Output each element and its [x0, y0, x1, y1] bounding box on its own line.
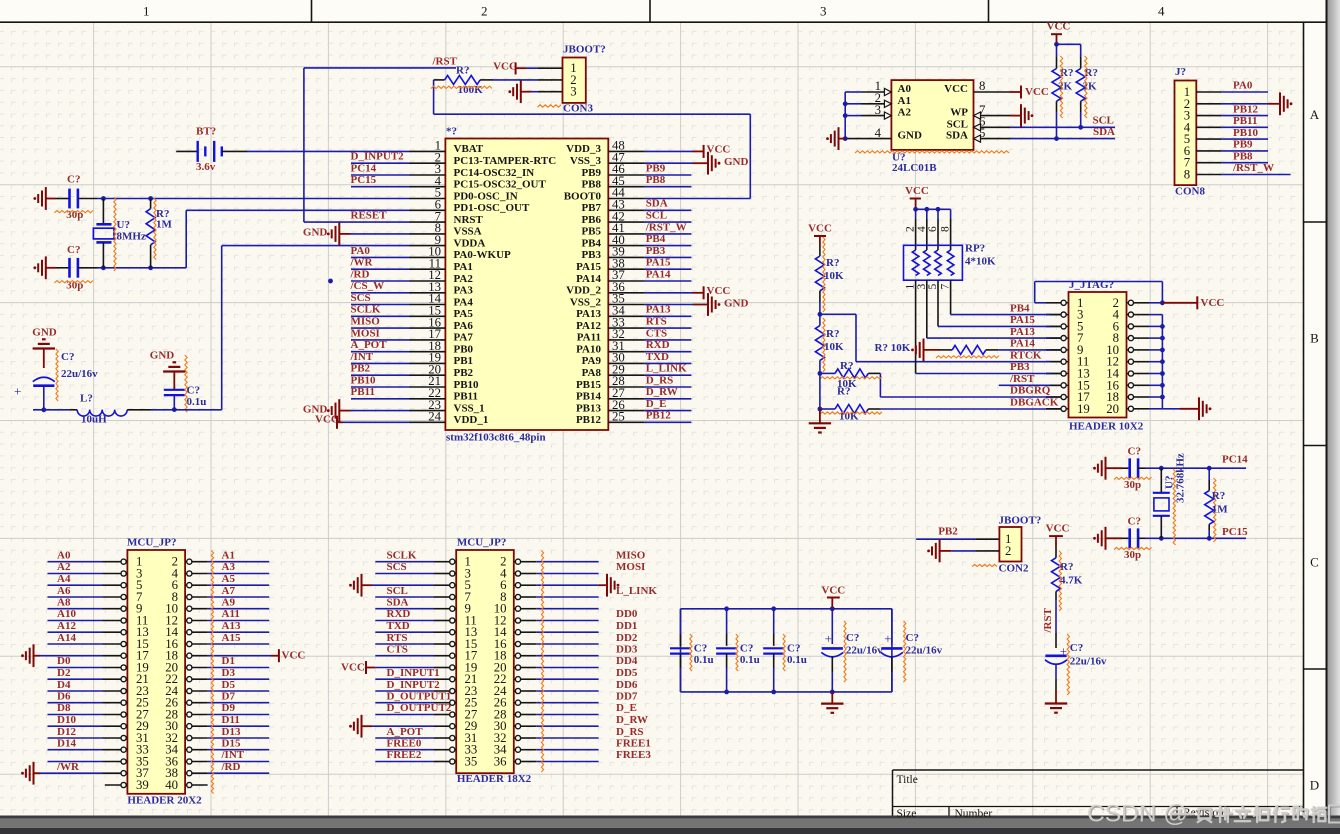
svg-text:40: 40: [165, 778, 178, 792]
svg-text:PB2: PB2: [454, 367, 474, 379]
svg-text:A1: A1: [898, 95, 911, 107]
svg-text:A_POT: A_POT: [351, 339, 388, 351]
svg-text:FREE3: FREE3: [616, 749, 651, 761]
svg-text:A2: A2: [898, 107, 912, 119]
svg-text:L?: L?: [80, 393, 93, 405]
svg-text:CTS: CTS: [646, 327, 667, 339]
svg-text:R?: R?: [826, 328, 839, 340]
svg-text:10K: 10K: [824, 341, 844, 353]
svg-text:TXD: TXD: [387, 620, 410, 632]
svg-text:D_RW: D_RW: [616, 714, 648, 726]
svg-text:D10: D10: [57, 714, 76, 726]
svg-text:/RST_W: /RST_W: [645, 221, 687, 233]
svg-text:PC14: PC14: [351, 162, 377, 174]
svg-text:22u/16v: 22u/16v: [846, 644, 883, 656]
svg-text:SDA: SDA: [646, 198, 668, 210]
svg-text:PB3: PB3: [1010, 361, 1030, 373]
svg-text:A: A: [1310, 107, 1320, 122]
svg-text:8MHz: 8MHz: [117, 230, 146, 242]
svg-text:D4: D4: [57, 679, 71, 691]
svg-text:MCU_JP?: MCU_JP?: [457, 537, 507, 549]
svg-text:PA7: PA7: [454, 332, 474, 344]
svg-text:VDD_3: VDD_3: [566, 143, 601, 155]
svg-text:C: C: [1310, 555, 1319, 570]
svg-text:/RST: /RST: [432, 55, 458, 67]
svg-text:8: 8: [979, 79, 985, 93]
svg-text:PA13: PA13: [646, 304, 671, 316]
svg-text:PC14-OSC32_IN: PC14-OSC32_IN: [454, 167, 535, 179]
svg-text:/RST: /RST: [1009, 373, 1035, 385]
svg-text:Number: Number: [955, 808, 993, 820]
svg-text:C?: C?: [1128, 446, 1141, 458]
svg-text:DD2: DD2: [616, 632, 638, 644]
svg-text:D_E: D_E: [646, 398, 667, 410]
svg-text:/RD: /RD: [221, 761, 241, 773]
svg-text:A10: A10: [57, 608, 76, 620]
svg-text:PB4: PB4: [646, 233, 666, 245]
svg-text:PC13-TAMPER-RTC: PC13-TAMPER-RTC: [454, 155, 557, 167]
svg-text:Size: Size: [897, 808, 917, 820]
svg-text:C?: C?: [67, 244, 80, 256]
svg-text:32.768kHz: 32.768kHz: [1175, 453, 1187, 503]
svg-text:SCL: SCL: [1093, 114, 1114, 126]
svg-text:D14: D14: [57, 738, 76, 750]
svg-text:PB10: PB10: [1233, 127, 1259, 139]
svg-text:RXD: RXD: [387, 608, 411, 620]
svg-text:stm32f103c8t6_48pin: stm32f103c8t6_48pin: [446, 432, 546, 444]
svg-text:C?: C?: [1070, 642, 1083, 654]
svg-text:VCC: VCC: [1047, 21, 1071, 33]
svg-text:0.1u: 0.1u: [694, 654, 714, 666]
svg-text:PA15: PA15: [646, 257, 671, 269]
svg-text:PB13: PB13: [576, 402, 602, 414]
svg-text:A9: A9: [222, 597, 236, 609]
svg-text:D11: D11: [222, 714, 240, 726]
svg-text:25: 25: [612, 410, 625, 424]
svg-text:19: 19: [1077, 402, 1090, 416]
svg-text:3.6v: 3.6v: [196, 161, 216, 173]
svg-text:GND: GND: [303, 227, 328, 239]
svg-text:PB2: PB2: [938, 526, 958, 538]
svg-text:TXD: TXD: [646, 351, 669, 363]
svg-text:D: D: [1310, 778, 1319, 793]
svg-text:VCC: VCC: [905, 185, 929, 197]
svg-text:PB11: PB11: [454, 391, 478, 403]
svg-text:PA6: PA6: [454, 320, 474, 332]
svg-text:PB8: PB8: [1233, 150, 1253, 162]
svg-text:SCLK: SCLK: [351, 304, 381, 316]
svg-text:A0: A0: [57, 550, 71, 562]
svg-text:PB11: PB11: [1233, 115, 1257, 127]
svg-text:SCS: SCS: [351, 292, 371, 304]
svg-text:DBGRQ: DBGRQ: [1010, 385, 1051, 397]
svg-text:A5: A5: [222, 573, 236, 585]
svg-text:SDA: SDA: [946, 130, 968, 142]
svg-text:8: 8: [1184, 168, 1190, 182]
svg-text:PA5: PA5: [454, 308, 474, 320]
svg-text:VCC: VCC: [1025, 86, 1049, 98]
svg-text:D5: D5: [222, 679, 236, 691]
svg-text:2: 2: [481, 4, 488, 19]
svg-text:PB11: PB11: [351, 386, 375, 398]
svg-text:RXD: RXD: [646, 339, 670, 351]
svg-text:PA15: PA15: [1010, 314, 1035, 326]
svg-text:VDDA: VDDA: [454, 237, 486, 249]
svg-text:VCC: VCC: [944, 83, 968, 95]
svg-text:VSSA: VSSA: [454, 226, 482, 238]
svg-text:PB6: PB6: [581, 214, 601, 226]
svg-text:10K: 10K: [824, 270, 844, 282]
svg-text:30p: 30p: [1124, 549, 1141, 561]
svg-text:C?: C?: [846, 632, 859, 644]
svg-text:SCS: SCS: [387, 561, 407, 573]
svg-text:PA2: PA2: [454, 273, 474, 285]
svg-text:PA4: PA4: [454, 296, 474, 308]
svg-text:C?: C?: [61, 351, 74, 363]
svg-text:DD0: DD0: [616, 608, 638, 620]
svg-text:+: +: [884, 631, 891, 646]
svg-text:MCU_JP?: MCU_JP?: [127, 537, 177, 549]
svg-text:0.1u: 0.1u: [740, 654, 760, 666]
svg-text:JBOOT?: JBOOT?: [999, 515, 1042, 527]
svg-text:VCC: VCC: [315, 414, 339, 426]
svg-text:PA12: PA12: [576, 320, 601, 332]
svg-text:PB9: PB9: [646, 162, 666, 174]
svg-text:R?: R?: [456, 65, 469, 77]
svg-text:C?: C?: [906, 632, 919, 644]
svg-text:RTS: RTS: [387, 632, 408, 644]
svg-text:PA1: PA1: [454, 261, 473, 273]
svg-text:PA11: PA11: [577, 332, 601, 344]
svg-text:DD3: DD3: [616, 644, 638, 656]
svg-text:PC15-OSC32_OUT: PC15-OSC32_OUT: [454, 179, 547, 191]
svg-text:MISO: MISO: [351, 316, 381, 328]
svg-text:PA8: PA8: [582, 367, 602, 379]
svg-text:VCC: VCC: [707, 144, 731, 156]
svg-text:D6: D6: [57, 691, 71, 703]
svg-text:36: 36: [494, 755, 507, 769]
svg-text:DD6: DD6: [616, 679, 638, 691]
svg-text:D_OUTPUT1: D_OUTPUT1: [387, 691, 452, 703]
svg-text:0.1u: 0.1u: [187, 396, 207, 408]
svg-text:VCC: VCC: [282, 650, 306, 662]
svg-text:D_RW: D_RW: [646, 386, 678, 398]
svg-text:PA10: PA10: [576, 344, 601, 356]
svg-text:A8: A8: [57, 597, 71, 609]
svg-text:4*10K: 4*10K: [965, 256, 996, 268]
svg-text:RESET: RESET: [351, 210, 388, 222]
svg-text:PB12: PB12: [576, 414, 602, 426]
svg-text:A14: A14: [57, 632, 76, 644]
svg-text:RTS: RTS: [646, 316, 667, 328]
svg-text:C?: C?: [187, 385, 200, 397]
svg-text:/INT: /INT: [221, 749, 245, 761]
svg-text:DD4: DD4: [616, 655, 638, 667]
svg-text:PB0: PB0: [454, 344, 474, 356]
svg-text:VDD_1: VDD_1: [454, 414, 489, 426]
svg-text:SDA: SDA: [1093, 126, 1115, 138]
svg-text:PA13: PA13: [576, 308, 601, 320]
svg-text:NRST: NRST: [454, 214, 484, 226]
svg-text:C?: C?: [67, 173, 80, 185]
svg-text:10uH: 10uH: [81, 414, 107, 426]
svg-text:1M: 1M: [1212, 504, 1229, 516]
svg-text:PC15: PC15: [1222, 526, 1248, 538]
svg-text:CON2: CON2: [999, 562, 1029, 574]
svg-text:PA14: PA14: [576, 273, 601, 285]
svg-text:D_RS: D_RS: [616, 726, 644, 738]
svg-text:SCL: SCL: [387, 585, 408, 597]
svg-text:A1: A1: [222, 550, 235, 562]
svg-text:PD1-OSC_OUT: PD1-OSC_OUT: [454, 202, 530, 214]
svg-text:A6: A6: [57, 585, 71, 597]
svg-text:PA14: PA14: [646, 268, 671, 280]
svg-text:DD5: DD5: [616, 667, 638, 679]
svg-text:PB7: PB7: [581, 202, 601, 214]
svg-text:FREE1: FREE1: [616, 738, 651, 750]
svg-text:DBGACK: DBGACK: [1010, 397, 1059, 409]
svg-text:PA0: PA0: [1233, 80, 1253, 92]
svg-text:PB5: PB5: [581, 226, 601, 238]
svg-text:*?: *?: [446, 126, 457, 138]
svg-text:22u/16v: 22u/16v: [1070, 656, 1107, 668]
svg-text:PA14: PA14: [1010, 338, 1035, 350]
svg-text:U?: U?: [117, 219, 130, 231]
svg-text:3: 3: [820, 4, 827, 19]
svg-text:SCLK: SCLK: [387, 550, 417, 562]
svg-text:4.7K: 4.7K: [1060, 575, 1083, 587]
svg-text:/CS_W: /CS_W: [350, 280, 385, 292]
svg-text:PB12: PB12: [646, 410, 672, 422]
svg-text:PB4: PB4: [581, 237, 601, 249]
svg-text:D7: D7: [222, 691, 236, 703]
svg-text:PA13: PA13: [1010, 326, 1035, 338]
svg-text:2: 2: [1005, 544, 1011, 558]
svg-text:VSS_3: VSS_3: [570, 155, 602, 167]
svg-text:VBAT: VBAT: [454, 143, 484, 155]
svg-text:+: +: [14, 384, 21, 399]
svg-text:22u/16v: 22u/16v: [61, 368, 98, 380]
svg-text:BT?: BT?: [196, 126, 216, 138]
svg-text:MOSI: MOSI: [351, 327, 380, 339]
svg-text:VCC: VCC: [1201, 297, 1225, 309]
svg-text:D9: D9: [222, 702, 236, 714]
svg-text:VCC: VCC: [1046, 523, 1070, 535]
svg-text:PB9: PB9: [1233, 139, 1253, 151]
svg-text:30p: 30p: [66, 209, 83, 221]
svg-text:B: B: [1310, 331, 1319, 346]
svg-text:GND: GND: [724, 156, 749, 168]
svg-text:D_RS: D_RS: [646, 374, 674, 386]
svg-text:A12: A12: [57, 620, 76, 632]
svg-text:R?: R?: [837, 386, 850, 398]
svg-text:D12: D12: [57, 726, 76, 738]
svg-text:CTS: CTS: [387, 644, 408, 656]
svg-text:SDA: SDA: [387, 597, 409, 609]
svg-text:PD0-OSC_IN: PD0-OSC_IN: [454, 190, 518, 202]
svg-text:RP?: RP?: [965, 243, 985, 255]
svg-text:D_INPUT2: D_INPUT2: [387, 679, 441, 691]
svg-text:35: 35: [465, 755, 478, 769]
svg-text:/INT: /INT: [350, 351, 374, 363]
svg-text:PB2: PB2: [351, 363, 371, 375]
svg-text:PB15: PB15: [576, 379, 602, 391]
svg-text:MISO: MISO: [616, 550, 646, 562]
svg-text:D0: D0: [57, 655, 71, 667]
svg-text:PB10: PB10: [351, 374, 377, 386]
svg-text:+: +: [825, 631, 832, 646]
svg-text:VCC: VCC: [707, 285, 731, 297]
svg-text:D15: D15: [222, 738, 241, 750]
svg-text:D8: D8: [57, 702, 71, 714]
svg-text:A11: A11: [222, 608, 240, 620]
svg-text:D_INPUT2: D_INPUT2: [351, 151, 405, 163]
svg-text:2: 2: [905, 226, 917, 232]
svg-text:PB4: PB4: [1010, 302, 1030, 314]
svg-text:6: 6: [927, 226, 939, 232]
svg-text:CON8: CON8: [1175, 186, 1205, 198]
svg-text:30p: 30p: [1124, 479, 1141, 491]
svg-text:PB8: PB8: [581, 179, 601, 191]
svg-text:HEADER 20X2: HEADER 20X2: [127, 795, 202, 807]
svg-text:CON3: CON3: [563, 103, 593, 115]
svg-text:4: 4: [916, 226, 928, 232]
svg-text:PB9: PB9: [581, 167, 601, 179]
svg-text:PB3: PB3: [581, 249, 601, 261]
svg-text:L_LINK: L_LINK: [616, 585, 657, 597]
svg-text:A13: A13: [222, 620, 241, 632]
svg-text:0.1u: 0.1u: [787, 654, 807, 666]
svg-text:D3: D3: [222, 667, 236, 679]
svg-text:VSS_2: VSS_2: [570, 296, 602, 308]
svg-text:HEADER 10X2: HEADER 10X2: [1069, 420, 1144, 432]
svg-text:SCL: SCL: [947, 118, 968, 130]
svg-text:PA3: PA3: [454, 285, 474, 297]
svg-text:R? 10K: R? 10K: [875, 342, 911, 354]
svg-text:PB14: PB14: [576, 391, 602, 403]
svg-text:PB12: PB12: [1233, 103, 1259, 115]
svg-text:JBOOT?: JBOOT?: [563, 43, 606, 55]
svg-text:GND: GND: [150, 350, 175, 362]
svg-text:PA15: PA15: [576, 261, 601, 273]
svg-text:VSS_1: VSS_1: [454, 402, 485, 414]
svg-text:R?: R?: [840, 360, 853, 372]
svg-text:A_POT: A_POT: [387, 726, 424, 738]
svg-text:GND: GND: [32, 327, 57, 339]
svg-text:GND: GND: [724, 297, 749, 309]
svg-text:20: 20: [1106, 402, 1119, 416]
svg-text:PC14: PC14: [1222, 454, 1248, 466]
svg-text:A4: A4: [57, 573, 71, 585]
svg-text:PB1: PB1: [454, 355, 474, 367]
svg-text:A3: A3: [222, 561, 236, 573]
svg-text:HEADER 18X2: HEADER 18X2: [457, 773, 532, 785]
svg-text:VCC: VCC: [341, 662, 365, 674]
svg-text:R?: R?: [1212, 490, 1225, 502]
svg-text:A7: A7: [222, 585, 236, 597]
svg-text:PB3: PB3: [646, 245, 666, 257]
svg-text:R?: R?: [826, 257, 839, 269]
svg-text:Title: Title: [897, 774, 918, 786]
svg-text:3: 3: [875, 103, 881, 117]
svg-text:L_LINK: L_LINK: [646, 363, 687, 375]
svg-text:FREE2: FREE2: [387, 749, 422, 761]
svg-text:PA0: PA0: [351, 245, 371, 257]
svg-text:A2: A2: [57, 561, 71, 573]
svg-text:/RST_W: /RST_W: [1232, 162, 1274, 174]
svg-text:C?: C?: [1128, 516, 1141, 528]
svg-text:39: 39: [136, 778, 149, 792]
svg-text:D_OUTPUT2: D_OUTPUT2: [387, 702, 452, 714]
svg-text:GND: GND: [898, 130, 923, 142]
svg-text:PB10: PB10: [454, 379, 480, 391]
svg-text:VCC: VCC: [493, 60, 517, 72]
svg-text:8: 8: [940, 226, 952, 232]
svg-text:/WR: /WR: [56, 761, 80, 773]
svg-text:24: 24: [428, 410, 441, 424]
svg-text:VDD_2: VDD_2: [566, 285, 601, 297]
svg-text:VCC: VCC: [808, 222, 832, 234]
svg-text:22u/16v: 22u/16v: [906, 644, 943, 656]
svg-text:A15: A15: [222, 632, 241, 644]
svg-text:WP: WP: [950, 107, 968, 119]
svg-text:1M: 1M: [156, 219, 173, 231]
svg-text:D13: D13: [222, 726, 241, 738]
svg-text:D_E: D_E: [616, 702, 637, 714]
svg-text:4: 4: [875, 126, 882, 140]
svg-text:DD7: DD7: [616, 691, 638, 703]
svg-text:D_INPUT1: D_INPUT1: [387, 667, 440, 679]
svg-text:PB8: PB8: [646, 174, 666, 186]
svg-text:4: 4: [1158, 4, 1165, 19]
svg-text:VCC: VCC: [821, 584, 845, 596]
svg-text:J?: J?: [1175, 66, 1186, 78]
svg-text:R?: R?: [1060, 561, 1073, 573]
svg-text:MOSI: MOSI: [616, 561, 645, 573]
svg-text:A0: A0: [898, 83, 912, 95]
svg-text:D2: D2: [57, 667, 71, 679]
svg-text:24LC01B: 24LC01B: [892, 162, 937, 174]
svg-text:PA9: PA9: [582, 355, 602, 367]
svg-text:FREE0: FREE0: [387, 738, 422, 750]
svg-text:BOOT0: BOOT0: [564, 190, 602, 202]
svg-text:RTCK: RTCK: [1010, 349, 1042, 361]
svg-text:DD1: DD1: [616, 620, 637, 632]
svg-text:D1: D1: [222, 655, 235, 667]
svg-text:PC15: PC15: [351, 174, 377, 186]
svg-text:PA0-WKUP: PA0-WKUP: [454, 249, 512, 261]
svg-text:3: 3: [570, 85, 576, 99]
svg-text:/WR: /WR: [350, 257, 374, 269]
svg-text:SCL: SCL: [646, 210, 667, 222]
svg-text:/RD: /RD: [350, 268, 370, 280]
svg-text:1: 1: [143, 4, 150, 19]
svg-text:/RST: /RST: [1042, 607, 1054, 633]
